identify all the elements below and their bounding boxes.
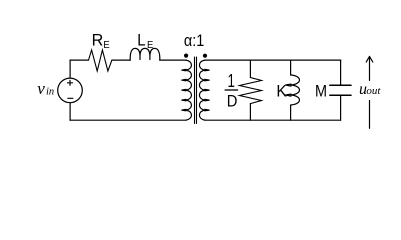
svg-text:K: K [276,82,287,101]
wire 1/D branch bottom [249,104,251,121]
transformer polarity dot secondary [203,54,207,58]
wire source bottom stub [69,103,71,120]
svg-text:E: E [103,40,110,52]
svg-text:in: in [46,87,54,98]
svg-text:out: out [366,85,381,97]
wire source top stub [69,60,71,77]
svg-text:E: E [147,40,154,52]
transformer core [195,57,197,124]
wire top rail secondary [205,59,341,61]
wire resistor to inductor [112,59,130,61]
transformer primary winding [182,60,192,120]
resistor RE [89,50,112,71]
transformer secondary winding [199,60,209,120]
transformer polarity dot primary [184,54,188,58]
svg-text:M: M [315,83,327,101]
label 1/D fraction bar [225,89,239,91]
svg-text:L: L [137,32,145,50]
wire K branch top [290,60,292,75]
wire K branch bottom [290,105,292,120]
wire top rail source to resistor [70,59,88,61]
wire bottom rail secondary [205,119,341,121]
wire 1/D branch top [249,60,251,77]
inductor LE [130,48,160,60]
wire inductor to transformer primary [160,59,186,61]
capacitor M top plate [330,84,351,86]
voltage source Vin [58,78,83,103]
wire bottom rail primary [70,119,186,121]
svg-text:v: v [37,79,45,98]
wire capacitor branch top [340,60,342,85]
capacitor M bottom plate [330,94,351,96]
svg-text:D: D [227,92,238,110]
svg-text:α:1: α:1 [184,32,204,50]
output voltage arrow uout [366,56,373,128]
svg-text:1: 1 [228,71,235,92]
resistor 1/D [240,78,262,104]
inductor K [286,75,300,105]
wire capacitor branch bottom [340,95,342,120]
svg-text:R: R [92,30,104,49]
